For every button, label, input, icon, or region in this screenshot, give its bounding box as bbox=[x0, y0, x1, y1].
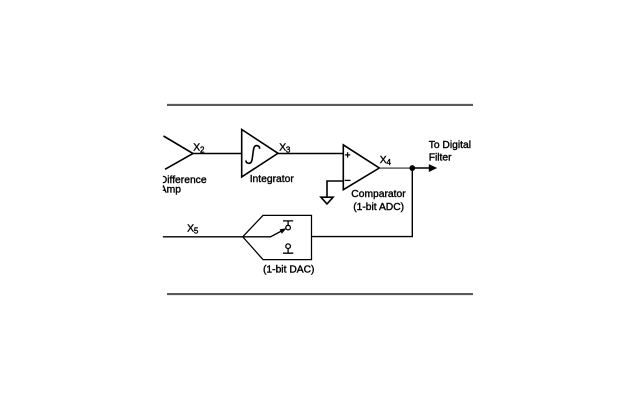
svg-text:2: 2 bbox=[200, 146, 205, 155]
svg-text:(1-bit DAC): (1-bit DAC) bbox=[263, 264, 315, 275]
svg-text:Comparator: Comparator bbox=[351, 189, 406, 200]
svg-text:Integrator: Integrator bbox=[250, 174, 295, 185]
svg-text:4: 4 bbox=[387, 158, 392, 167]
svg-text:(1-bit ADC): (1-bit ADC) bbox=[353, 202, 404, 213]
svg-text:5: 5 bbox=[194, 226, 199, 235]
svg-text:Amp: Amp bbox=[160, 185, 181, 196]
svg-text:To Digital: To Digital bbox=[429, 140, 471, 151]
svg-text:3: 3 bbox=[286, 146, 291, 155]
svg-text:Filter: Filter bbox=[429, 152, 452, 163]
